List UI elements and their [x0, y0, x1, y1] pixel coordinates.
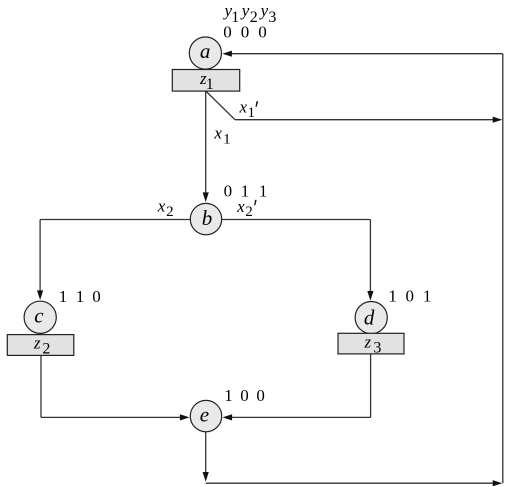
wire: x1 vertical from z1 to b — [205, 91, 207, 195]
svg-text:3: 3 — [373, 340, 381, 357]
svg-text:x: x — [239, 98, 248, 117]
svg-text:0: 0 — [223, 23, 232, 42]
svg-text:x: x — [236, 197, 245, 216]
arrowhead into state b — [203, 192, 209, 202]
arrowhead into state e from right — [223, 414, 233, 420]
svg-text:z: z — [33, 334, 41, 353]
wire: bottom horizontal to right feedback — [206, 482, 497, 484]
svg-text:a: a — [200, 39, 211, 63]
wire: right feedback vertical — [502, 54, 504, 484]
output box z1 — [172, 70, 239, 92]
node label y1y2y3 — [223, 1, 277, 26]
svg-text:2: 2 — [42, 341, 50, 358]
state d code 1 0 1 — [388, 286, 431, 305]
svg-text:0: 0 — [256, 386, 265, 405]
svg-text:c: c — [34, 304, 44, 328]
svg-text:0: 0 — [406, 286, 415, 305]
svg-text:1: 1 — [224, 386, 233, 405]
wire: right bottom horizontal into e — [229, 416, 371, 418]
state c circle — [24, 301, 56, 333]
wire: vertical down to d — [369, 220, 371, 294]
wire: z2 down vertical — [40, 355, 42, 417]
state e code 1 0 0 — [224, 386, 265, 405]
arrowhead x1' into right vertical — [493, 117, 503, 123]
svg-text:1: 1 — [259, 181, 268, 200]
prime tick of x2' — [254, 200, 257, 206]
svg-text:x: x — [213, 123, 222, 142]
arrowhead into right vertical at bottom — [493, 480, 503, 486]
svg-text:0: 0 — [224, 181, 233, 200]
arrowhead at bottom corner of e line — [203, 472, 209, 482]
svg-text:1: 1 — [231, 9, 239, 26]
state b circle — [190, 203, 221, 234]
state d circle — [355, 302, 387, 334]
arrowhead into state e from left — [180, 414, 190, 420]
svg-text:0: 0 — [241, 23, 250, 42]
svg-text:y: y — [259, 1, 269, 20]
svg-text:e: e — [200, 403, 209, 427]
state e circle — [190, 400, 221, 431]
svg-text:3: 3 — [268, 9, 276, 26]
wire: feedback top horizontal into state a — [229, 53, 503, 55]
svg-text:1: 1 — [223, 131, 231, 147]
svg-text:1: 1 — [248, 105, 256, 121]
svg-text:1: 1 — [388, 286, 397, 305]
output box z2 — [7, 335, 74, 356]
state c code 1 1 0 — [59, 287, 101, 306]
svg-text:0: 0 — [258, 23, 267, 42]
svg-text:b: b — [202, 206, 213, 230]
prime tick of x1' — [256, 101, 259, 107]
wire: x1' diagonal from z1 — [206, 91, 235, 120]
wire: vertical down to c — [39, 220, 41, 294]
wire: b left horizontal — [40, 219, 190, 221]
wire: b right horizontal — [222, 219, 370, 221]
svg-text:1: 1 — [59, 287, 68, 306]
wire: z3 down vertical — [370, 354, 372, 418]
svg-text:0: 0 — [240, 386, 249, 405]
state a circle — [189, 37, 221, 69]
arrowhead into state d — [367, 291, 373, 301]
wire: x1' horizontal to right feedback — [235, 119, 497, 121]
svg-text:1: 1 — [206, 76, 214, 93]
svg-text:1: 1 — [76, 287, 85, 306]
arrowhead into state a — [222, 51, 232, 57]
svg-text:y: y — [240, 1, 250, 20]
label x2' — [236, 197, 257, 220]
svg-text:z: z — [364, 333, 372, 352]
output box z3 — [338, 333, 404, 354]
svg-text:1: 1 — [423, 286, 432, 305]
arrowhead into state c — [37, 290, 43, 300]
svg-text:d: d — [364, 305, 375, 329]
svg-text:x: x — [157, 197, 166, 216]
svg-text:0: 0 — [92, 287, 101, 306]
svg-text:2: 2 — [166, 204, 174, 220]
label x1' — [239, 98, 259, 121]
state b code 0 1 1 — [224, 181, 268, 200]
svg-text:2: 2 — [250, 9, 258, 26]
wire: left bottom horizontal into e — [41, 416, 183, 418]
svg-text:2: 2 — [245, 204, 253, 220]
state a code 0 0 0 — [223, 23, 266, 42]
label x2 — [157, 197, 174, 220]
wire: e down vertical — [205, 432, 207, 474]
label x1 — [213, 123, 230, 147]
